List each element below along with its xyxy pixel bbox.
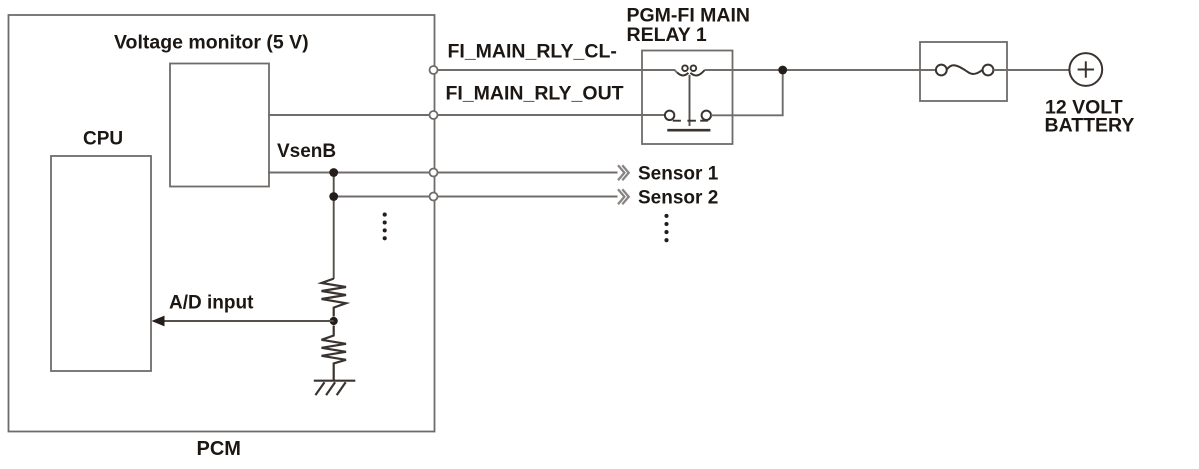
CPU box [51, 156, 151, 371]
battery symbol circle with plus [1069, 53, 1102, 86]
terminal circle sensor 1 [430, 169, 438, 177]
resistor R1 upper divider [322, 279, 347, 317]
relay linkage dashes [673, 120, 708, 122]
wire FI_MAIN_RLY_CL- from PCM edge to relay coil [434, 70, 678, 73]
terminal circle FI_MAIN_RLY_CL- [430, 66, 438, 74]
ground symbol [314, 381, 356, 395]
svg-text:Voltage monitor (5 V): Voltage monitor (5 V) [114, 32, 309, 54]
svg-text:BATTERY: BATTERY [1045, 115, 1135, 137]
svg-text:Sensor 1: Sensor 1 [638, 164, 719, 185]
svg-text:PCM: PCM [197, 438, 241, 460]
PCM enclosure box [9, 15, 435, 432]
wire FI_MAIN_RLY_OUT from voltage monitor to relay contact [268, 114, 665, 116]
wire VsenB junction down to divider [333, 173, 335, 280]
wire relay output to junction riser [711, 70, 783, 115]
svg-text:VsenB: VsenB [277, 141, 336, 162]
chevron sensor 1 [618, 165, 629, 180]
node junction dot relay output [778, 66, 787, 75]
node VsenB junction 1 [329, 168, 338, 177]
svg-text:RELAY 1: RELAY 1 [627, 24, 707, 46]
fuse element [936, 65, 994, 76]
svg-text:FI_MAIN_RLY_CL-: FI_MAIN_RLY_CL- [448, 41, 617, 63]
arrowhead A/D input [152, 316, 165, 327]
relay armature vertical link [689, 75, 691, 126]
svg-text:Sensor 2: Sensor 2 [638, 188, 718, 209]
relay box [642, 51, 733, 145]
ellipsis dots left [383, 213, 387, 241]
relay coil [677, 65, 705, 75]
terminal circle sensor 2 [430, 193, 438, 201]
ellipsis dots right [664, 214, 668, 242]
svg-text:A/D input: A/D input [169, 293, 254, 314]
chevron sensor 2 [618, 189, 629, 204]
wire VsenB from voltage monitor to PCM edge and Sensor 1 [268, 172, 618, 174]
relay contact bar [667, 129, 710, 132]
fuse box [920, 42, 1007, 101]
relay contact right circle [702, 111, 711, 120]
resistor R2 lower divider [322, 326, 347, 381]
wire relay coil to fuse [705, 69, 936, 71]
wire sensor 2 [334, 196, 618, 198]
svg-text:CPU: CPU [83, 129, 123, 150]
terminal circle FI_MAIN_RLY_OUT [430, 111, 438, 119]
svg-text:FI_MAIN_RLY_OUT: FI_MAIN_RLY_OUT [446, 83, 624, 105]
node VsenB junction 2 [329, 192, 338, 201]
wire A/D input [163, 320, 334, 322]
node A/D junction [330, 317, 338, 325]
voltage monitor box [170, 64, 269, 187]
wire fuse to battery [994, 69, 1070, 71]
relay contact left circle [665, 111, 674, 120]
